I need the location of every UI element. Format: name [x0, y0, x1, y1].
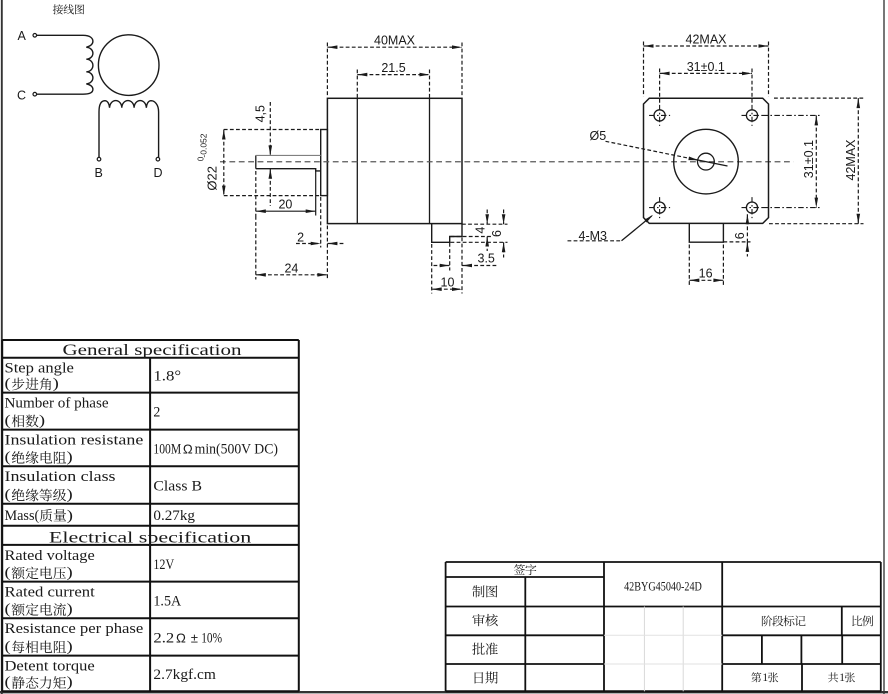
svg-text:Step angle: Step angle	[5, 361, 75, 377]
label 第1张	[751, 672, 778, 684]
row Insulation class	[5, 469, 202, 503]
row Resistance per phase	[5, 621, 223, 655]
row Number of phase	[5, 396, 161, 429]
mounting hole top-right	[742, 105, 763, 126]
svg-text:): )	[53, 376, 59, 392]
phase A-C coil (vertical)	[83, 35, 93, 94]
centerline	[220, 161, 794, 163]
dim 40MAX	[327, 34, 462, 97]
boss circle (front)	[674, 129, 739, 194]
terminal D label	[154, 166, 163, 180]
svg-text:(: (	[5, 449, 11, 465]
dim 20 (flat length)	[256, 171, 316, 216]
svg-text:): )	[67, 508, 73, 524]
svg-text:6: 6	[733, 232, 747, 239]
svg-text:): )	[39, 413, 45, 429]
svg-text:42BYG45040-24D: 42BYG45040-24D	[624, 579, 702, 594]
svg-text:24: 24	[284, 261, 298, 275]
wire C to coil	[37, 93, 83, 95]
svg-text:): )	[67, 675, 73, 691]
terminal block (side)	[432, 224, 462, 243]
svg-text:min(500V DC): min(500V DC)	[195, 441, 278, 457]
wiring diagram title 接线图	[53, 4, 84, 14]
dim 21.5	[357, 61, 429, 97]
svg-text:Ω: Ω	[183, 441, 193, 456]
svg-text:100M: 100M	[153, 441, 181, 457]
svg-text:42MAX: 42MAX	[844, 139, 858, 181]
dim 16	[689, 245, 723, 286]
dim 6 (front)	[723, 214, 750, 256]
svg-text:D: D	[154, 166, 163, 180]
svg-text:1.5A: 1.5A	[153, 593, 181, 609]
svg-text:31±0.1: 31±0.1	[687, 60, 725, 74]
svg-text:Rated current: Rated current	[5, 585, 96, 601]
dim Ø22 0/-0.052	[196, 130, 321, 196]
mounting hole bottom-right	[742, 197, 763, 218]
label 共1张	[828, 672, 855, 684]
terminal B label	[95, 166, 103, 180]
pilot boss	[321, 130, 328, 196]
svg-text:(: (	[5, 376, 11, 392]
label Ø5 with leader	[590, 129, 728, 166]
row Rated voltage	[5, 548, 175, 581]
label 批准	[472, 643, 498, 655]
table header Electrical specification	[49, 529, 251, 546]
svg-text:(: (	[5, 639, 11, 655]
dim 42MAX right	[769, 98, 864, 224]
svg-text:): )	[67, 601, 73, 617]
specification table grid	[2, 340, 299, 691]
terminal D circle	[156, 157, 160, 161]
terminal B circle	[97, 157, 101, 161]
svg-text:(: (	[5, 487, 11, 503]
terminal C label	[17, 88, 26, 102]
dim 4 (terminal step)	[451, 210, 508, 252]
svg-text:20: 20	[278, 197, 292, 211]
front view flange outline	[644, 98, 769, 223]
terminal C circle	[33, 92, 37, 96]
svg-text:Mass(: Mass(	[5, 508, 40, 524]
svg-text:1: 1	[839, 672, 845, 684]
svg-text:General specification: General specification	[63, 342, 242, 359]
svg-text:-0.052: -0.052	[199, 133, 209, 157]
title block grid	[446, 562, 881, 691]
motor body (side view)	[327, 98, 462, 223]
label 制图	[472, 585, 497, 597]
svg-text:): )	[67, 487, 73, 503]
dim 42MAX top	[644, 32, 769, 96]
svg-text:): )	[67, 639, 73, 655]
svg-text:(: (	[5, 675, 11, 691]
rotor circle	[98, 35, 159, 96]
dim 31±0.1 right	[763, 115, 822, 207]
svg-text:4: 4	[474, 227, 488, 234]
svg-text:Resistance per phase: Resistance per phase	[5, 621, 144, 637]
terminal block (front)	[689, 223, 723, 242]
svg-text:(: (	[5, 413, 11, 429]
dim 2 (boss protrusion)	[296, 197, 344, 248]
label 审核	[472, 614, 497, 626]
table header General specification	[63, 342, 242, 359]
mounting hole top-left	[649, 105, 670, 126]
svg-text:1: 1	[762, 672, 768, 684]
svg-text:Detent torque: Detent torque	[5, 659, 96, 675]
mounting hole bottom-left	[649, 197, 670, 218]
svg-text:Rated voltage: Rated voltage	[5, 548, 96, 564]
svg-text:21.5: 21.5	[381, 61, 405, 75]
svg-text:(: (	[5, 601, 11, 617]
label 4-M3 with leader	[568, 213, 655, 242]
svg-text:2: 2	[153, 405, 160, 421]
terminal A label	[18, 29, 27, 43]
shaft end cap	[255, 155, 257, 168]
label 日期	[475, 672, 498, 684]
dim 10	[432, 244, 462, 294]
svg-text:Number of phase: Number of phase	[5, 396, 109, 412]
svg-text:16: 16	[699, 267, 713, 281]
page right border	[883, 0, 885, 694]
dim 24 (shaft length)	[256, 216, 328, 280]
svg-text:12V: 12V	[153, 557, 174, 573]
svg-text:3.5: 3.5	[478, 251, 495, 265]
dim 31±0.1 top	[660, 60, 752, 104]
part number 42BYG45040-24D	[624, 579, 702, 594]
row Detent torque	[5, 659, 217, 691]
svg-text:2.2: 2.2	[153, 630, 174, 646]
row Step angle	[5, 361, 182, 392]
label 比例	[852, 615, 873, 626]
svg-text:6: 6	[490, 230, 504, 237]
dim 3.5	[434, 238, 498, 294]
svg-text:): )	[67, 449, 73, 465]
svg-text:Insulation resistane: Insulation resistane	[5, 433, 144, 449]
svg-text:42MAX: 42MAX	[686, 32, 728, 46]
svg-text:C: C	[17, 88, 26, 102]
svg-text:B: B	[95, 166, 103, 180]
svg-text:Ø5: Ø5	[590, 129, 607, 143]
body section line left	[356, 98, 358, 223]
title block faint inner lines	[604, 607, 722, 692]
svg-text:2: 2	[297, 230, 304, 244]
label 签字	[514, 564, 536, 575]
wire A to coil	[37, 34, 83, 36]
svg-text:Ω: Ω	[176, 630, 186, 645]
svg-text:1.8°: 1.8°	[153, 369, 181, 385]
svg-text:Insulation class: Insulation class	[5, 469, 116, 485]
phase B-D coil (horizontal)	[99, 101, 159, 158]
dim 4,5 (shaft flat)	[254, 102, 272, 206]
svg-text:2.7kgf.cm: 2.7kgf.cm	[153, 667, 216, 683]
svg-text:±: ±	[191, 630, 198, 645]
svg-text:4,5: 4,5	[254, 105, 268, 122]
row Rated current	[5, 585, 182, 618]
page left border	[1, 0, 3, 694]
dim 6 (terminal depth, side)	[451, 210, 508, 258]
shaft circle (front)	[698, 153, 715, 170]
svg-text:Class B: Class B	[153, 478, 202, 494]
svg-text:40MAX: 40MAX	[374, 34, 416, 48]
row Insulation resistane	[5, 433, 278, 466]
body section line right	[429, 98, 431, 223]
svg-text:Electrical specification: Electrical specification	[49, 529, 251, 546]
svg-text:): )	[67, 565, 73, 581]
row Mass	[5, 508, 196, 524]
label 阶段标记	[762, 615, 806, 626]
terminal A circle	[33, 34, 37, 38]
shaft	[256, 155, 321, 171]
page bottom border	[0, 691, 888, 693]
svg-text:Ø22: Ø22	[205, 166, 220, 191]
svg-text:A: A	[18, 29, 27, 43]
svg-text:(: (	[5, 565, 11, 581]
svg-text:31±0.1: 31±0.1	[802, 140, 816, 178]
svg-text:10: 10	[441, 275, 455, 289]
svg-text:0.27kg: 0.27kg	[153, 508, 195, 524]
svg-text:10%: 10%	[201, 630, 222, 646]
